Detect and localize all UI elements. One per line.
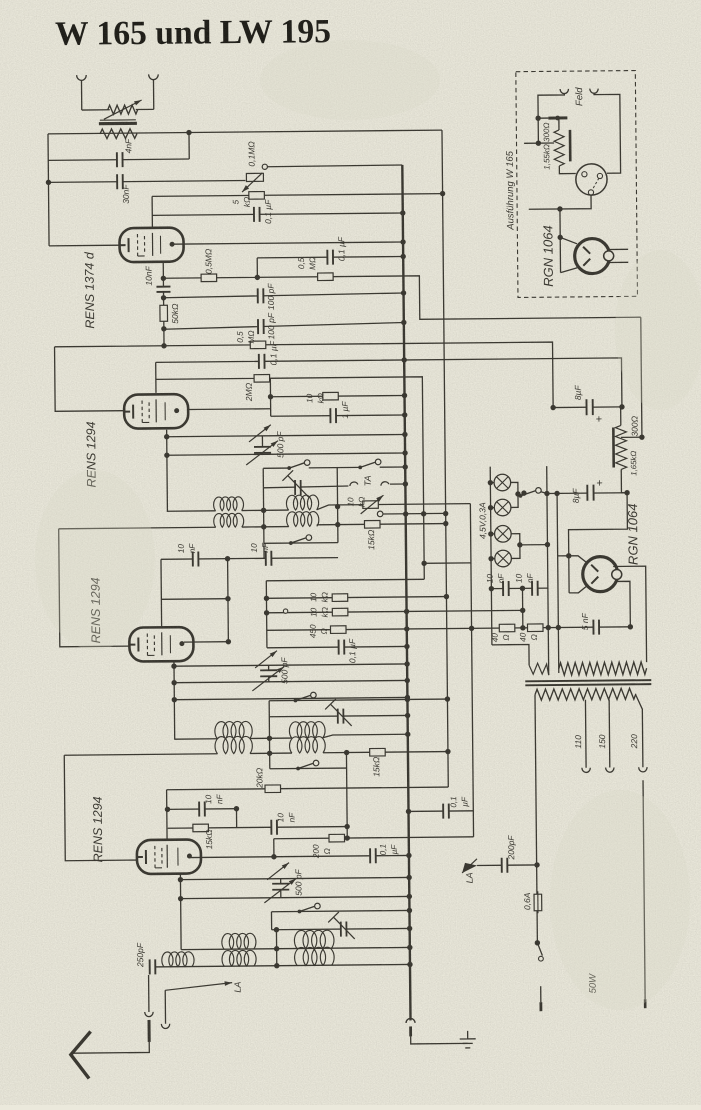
lamp L3 (494, 525, 511, 542)
pot wiper terminal circle (262, 164, 267, 169)
wire Feld right lead (594, 92, 621, 173)
jack TA left (350, 482, 358, 486)
label 450 ohm (309, 624, 329, 638)
resistor 0,5 M-ohm b (318, 273, 334, 281)
wire anode2 rail (177, 408, 271, 411)
wire trimmer row2 (269, 715, 407, 716)
wire V_k3 (173, 662, 176, 740)
switch hook on rail t3b (283, 609, 287, 613)
antenna terminal right (149, 74, 159, 79)
wire anode rail tube1 (171, 242, 403, 244)
dashed box Ausfuehrung W165 (516, 71, 638, 298)
slider bar of 1,65k resistor (612, 427, 615, 467)
wire RGN feed (568, 492, 628, 593)
node 272/965 (274, 963, 279, 968)
inductor A2 (286, 495, 318, 510)
wire coil gap D (250, 752, 292, 754)
heater winding zigzag (529, 663, 549, 675)
jack bus bottom (406, 1018, 415, 1023)
node 491/484 (488, 480, 493, 485)
wire V3 to tube3 (59, 528, 131, 647)
potentiometer 10 k-ohm volume (363, 501, 379, 509)
wire rail 450ohm heater (267, 627, 631, 630)
wire 500pF2 stub b (268, 676, 270, 681)
node bus 878 (406, 875, 411, 880)
arrow 500pF no2 b (252, 667, 284, 691)
inductor F2 (222, 950, 256, 966)
node bus 396 (402, 393, 407, 398)
wire 200ohm branch (274, 837, 474, 839)
node bus 690 (405, 695, 410, 700)
wire rail 700 (269, 699, 447, 701)
node 272/948 (274, 946, 279, 951)
node 344/838 (345, 835, 350, 840)
node 534/867 (534, 862, 539, 867)
capacitor 0,1uF grid2 (259, 354, 265, 369)
wire lamp1 bracket (511, 482, 518, 494)
wire anode inner rail (257, 256, 403, 257)
wire grid-cap vertical of tube V1 (151, 196, 153, 229)
switch mains lever (537, 943, 542, 956)
jack tap 110 (582, 768, 590, 773)
wire vertical 260 (256, 258, 258, 277)
node 522/612 (520, 608, 525, 613)
wire coil rail A (167, 510, 215, 512)
lamp L4 (495, 550, 512, 567)
label 0,5 M-ohm b (297, 257, 317, 270)
wire rail 30nF (48, 180, 245, 182)
node 344 D (344, 750, 349, 755)
socket pin c (588, 190, 593, 195)
inductor B2 (287, 512, 319, 527)
wire Feld slider lead (538, 117, 548, 119)
capacitor 5 nF (593, 620, 599, 635)
wire mains below switch (540, 986, 542, 1002)
node bus 213 (400, 210, 405, 215)
capacitor 8uF b (587, 485, 593, 501)
node k4 b (178, 896, 183, 901)
wire rail 1uF (271, 415, 405, 416)
node 629/629 (628, 624, 633, 629)
mains stub (539, 1002, 542, 1011)
terminal circle 10k pot (377, 511, 383, 517)
label 200 ohm (312, 844, 332, 859)
trimmer capacitor T1 (282, 470, 309, 497)
label 10 k t3b (309, 607, 329, 618)
node bus 453 (402, 450, 407, 455)
wire coil D right to 15k (323, 752, 448, 753)
jack Feld right (590, 89, 598, 94)
node 264 B (261, 524, 266, 529)
capacitor 30nF (117, 174, 123, 189)
capacitor 4nF (117, 152, 123, 167)
node bus 897 (407, 894, 412, 899)
wire trimmer row3 (272, 928, 410, 929)
wire lamp4 bracket (511, 545, 520, 559)
variable capacitor 500 pF no2 plates (260, 670, 277, 676)
wire 250pF down (148, 975, 150, 1012)
label 0,5 M-ohm c (236, 330, 256, 343)
wire lamp3 left stub (491, 533, 495, 535)
label 10 k-ohm pot (346, 497, 366, 508)
wire vertical 264 (262, 468, 265, 558)
wire right vertical to field tap (641, 317, 642, 437)
node bus 467 (402, 464, 407, 469)
wire lamp2 left stub (491, 507, 495, 509)
capacitor 10 nF t4b (271, 820, 277, 835)
node 338 A (335, 504, 340, 509)
wire secondary left down (535, 695, 537, 943)
node bus 327 (401, 320, 406, 325)
node 446/752 (445, 749, 450, 754)
resistor 200 ohm (329, 834, 345, 842)
node RGN top (566, 553, 571, 558)
wire 300ohm stub (620, 407, 622, 425)
node slider bar dot (555, 116, 560, 121)
slider track bar box (569, 130, 572, 161)
wire TA to bus (390, 483, 405, 485)
wire coil B right to 15k (317, 524, 446, 525)
node bus 435 (402, 432, 407, 437)
wire coil rail B left (59, 527, 216, 529)
node 227/597 (225, 596, 230, 601)
wire grid4 vertical (166, 790, 169, 847)
plug pin bus (409, 1026, 412, 1036)
wire lamp34 to right (520, 544, 548, 546)
node k3 a (171, 663, 176, 668)
wire V4 to tube4 (64, 755, 138, 861)
resistor 10 k-ohm t3b (332, 608, 348, 616)
wire rail 10k (271, 395, 405, 396)
node bus 812 (406, 809, 411, 814)
wire vertical 522 heater (521, 588, 523, 627)
node bus 612 (404, 609, 409, 614)
wire field tap (621, 436, 642, 438)
inductor B1 (214, 513, 244, 527)
resistor 1,55k box zigzag (554, 130, 564, 166)
node 557/629 (556, 625, 561, 630)
rectifier tube RGN 1064 envelope (583, 556, 618, 591)
wire vertical 446 (442, 130, 448, 787)
wire vertical 268 t4 (270, 912, 272, 930)
resistor 450 ohm (330, 626, 346, 634)
wire junction drop to 4nF rail (188, 133, 190, 159)
resistor 10 k-ohm t3a (332, 594, 348, 602)
wire LA vertical (164, 990, 166, 1023)
node 548/495 (544, 491, 549, 496)
label 10 nF h2 (515, 572, 535, 583)
lightning arrester bar thin (100, 119, 136, 121)
node 266/612 (264, 610, 269, 615)
node bus 360 (401, 357, 406, 362)
transformer primary winding (559, 662, 647, 675)
capacitor 200 pF (502, 858, 508, 873)
tetrode U4 RENS 1294 (137, 839, 201, 874)
wire antenna crossbar (82, 109, 110, 111)
wire RGN lead top-right (613, 566, 646, 662)
wire tap 110 (584, 700, 587, 768)
node lamp sw tap (515, 491, 520, 496)
resistor 0,5 M-ohm a (201, 274, 217, 282)
node box RGN top (557, 235, 562, 240)
wire rail 580 to bias group (266, 579, 424, 581)
capacitor 8uF a (586, 399, 592, 415)
wire ant coil rail bottom (152, 964, 409, 966)
wire anode4 rail (190, 855, 409, 857)
wire rail 453 (167, 453, 405, 455)
wire left vertical V1 (48, 134, 49, 246)
jack Feld left (560, 89, 568, 94)
wire 500pF3 stub a (280, 879, 282, 884)
wire rail t3 10k a (266, 597, 446, 599)
label 10 k-ohm (305, 393, 325, 404)
wire rail 0,1uF t3 (267, 646, 407, 647)
antenna arrow symbol (71, 1032, 91, 1079)
node bus 242 (400, 239, 405, 244)
node bus 911 (407, 908, 412, 913)
wire slider stub (558, 118, 560, 130)
wire RGN box lead a (560, 237, 577, 244)
resistor 50 k-ohm (160, 305, 168, 321)
wire lamp3 bracket (511, 534, 520, 545)
node 548/546 (545, 542, 550, 547)
switch S5 (296, 760, 319, 770)
switch lamp S7 (519, 488, 542, 498)
switch S3 (289, 535, 312, 545)
switch S2 (358, 459, 381, 469)
inductor D2 (289, 737, 325, 754)
capacitor 10 nF t4 (199, 802, 205, 817)
node k3 b (171, 680, 176, 685)
capacitor 0,1uF anode (327, 250, 333, 265)
node bus 514 (403, 511, 408, 516)
switch S1 (287, 460, 310, 470)
wire rail 10nF row (161, 558, 338, 560)
lamp L2 (494, 499, 511, 516)
wire rail 100pF a (164, 293, 404, 298)
node 491/509 (488, 505, 493, 510)
wire socket bottom lead (529, 195, 592, 209)
wire anode3 rail (184, 641, 228, 643)
wire rail 826 cluster (168, 827, 347, 829)
node 491/590 (489, 586, 494, 591)
node bus 631 (404, 626, 409, 631)
node bus 484 (403, 481, 408, 486)
node bus 948 (407, 945, 412, 950)
node Feld slider (535, 115, 540, 120)
transformer core line b (525, 684, 651, 685)
node 266/597 (264, 596, 269, 601)
label 10 nF t4 (204, 793, 224, 804)
node k3 c (172, 697, 177, 702)
node 0,5M mid (255, 275, 260, 280)
arrow 500pF no3 b (264, 879, 296, 903)
wire switch row2 (264, 542, 338, 545)
capacitor 10 nF b (266, 551, 272, 566)
inductor A1 (214, 497, 244, 511)
label 10 nF b (250, 542, 270, 553)
node 267 C (267, 736, 272, 741)
node bus 647 (404, 644, 409, 649)
capacitor 0,1uF mains (443, 804, 449, 819)
wire vertical 266 bias (265, 581, 268, 648)
wire grid3 vertical (160, 559, 163, 626)
node 271/856 (271, 854, 276, 859)
label 10 nF t4b (276, 812, 296, 823)
capacitor 10 nF h2 (532, 581, 538, 596)
wire 8uF rail b (547, 492, 627, 495)
wire tap 220 (636, 695, 643, 767)
node 8uF a left (550, 405, 555, 410)
node anode3 227 (226, 639, 231, 644)
capacitor 10 nF a (193, 551, 199, 566)
wire coil gap C (250, 737, 292, 739)
node 227 row (225, 556, 230, 561)
node k1 b (161, 295, 166, 300)
jack tap 220 (639, 767, 647, 772)
inductor E1 (222, 933, 256, 949)
socket pin a (582, 172, 587, 177)
node k1 c (161, 326, 166, 331)
node 471/629 (469, 626, 474, 631)
wire switch row4 (270, 767, 347, 770)
node 344/826 (344, 824, 349, 829)
node k2 a (164, 434, 169, 439)
label 0,1uF anode4 (379, 844, 399, 856)
wire antenna right lead (152, 80, 154, 109)
wire grid2 vertical (155, 362, 157, 392)
wire main anode bus (402, 165, 410, 1020)
wire Feld left lead (538, 93, 565, 143)
antenna terminal left (77, 75, 87, 80)
node bus 678 (405, 678, 410, 683)
jack TA right (381, 482, 389, 486)
wire RGN box lead b (561, 268, 578, 273)
inductor F1 (162, 952, 194, 967)
wire vertical 338 (336, 468, 339, 543)
wire rail R1 top (48, 130, 442, 134)
variable capacitor 500 pF no3 plates (272, 884, 289, 890)
RGN filament strokes (591, 565, 598, 584)
node 491/535 (488, 531, 493, 536)
RGN anode notch (612, 569, 622, 579)
ground symbol (460, 1031, 476, 1048)
wire vertical 557 filament (557, 493, 559, 673)
node 446/524 (443, 521, 448, 526)
label 10 k t3a (309, 592, 329, 603)
triode U1 RENS 1374 d (119, 228, 183, 263)
arrow 500pF no1 b (246, 441, 278, 465)
wire rail 678 (174, 680, 407, 682)
node 522/629 (520, 625, 525, 630)
wire rail 0,5M (163, 274, 640, 322)
inductor F3 (295, 947, 335, 965)
trimmer capacitor T2 (325, 699, 352, 726)
node bus 257 (400, 254, 405, 259)
wire V2 down to tube2 (55, 346, 124, 411)
node 548/629 (546, 625, 551, 630)
wire coil rail D left (64, 754, 217, 755)
node box 145 (536, 140, 541, 145)
node k2 b (164, 453, 169, 458)
label 5 k-ohm (231, 197, 251, 208)
wire V_k2 (166, 430, 169, 512)
label 10 nF h1 (486, 573, 506, 584)
inductor D1 (215, 736, 252, 753)
node 424/564 (421, 561, 426, 566)
wire 500pF2 stub a (268, 665, 270, 670)
resistor 40 ohm a (499, 624, 515, 632)
node k1 d (161, 343, 166, 348)
potentiometer 0,1 M-ohm body (246, 173, 263, 181)
wire ant coil rail top (181, 947, 410, 949)
resistor 15 k-ohm a (364, 520, 380, 528)
wire vertical 471 (470, 504, 473, 837)
switch S6 (297, 903, 320, 913)
node lamp34 join (517, 542, 522, 547)
trimmer capacitor T3 (328, 912, 355, 939)
node 446/597 (444, 594, 449, 599)
wire switch row5 (271, 910, 409, 911)
wire lamp vertical right (heater stub) (547, 466, 549, 627)
socket pin b (597, 173, 602, 178)
node k4 a (178, 877, 183, 882)
node 272/929 (274, 927, 279, 932)
node bus 700 (405, 697, 410, 702)
resistor 10 k-ohm (323, 392, 339, 400)
arrow LA mains (462, 863, 477, 873)
wire bus tail (411, 1036, 468, 1044)
node 234/807 (234, 806, 239, 811)
arrow through 10k pot (360, 495, 383, 514)
arrow LA tap (165, 981, 232, 990)
wire pot wiper to bus top (267, 165, 402, 167)
wire antenna left lead (80, 81, 82, 110)
switch S4 (293, 692, 316, 702)
wire coil A right to pot (317, 504, 471, 510)
wire 500pF stub a (261, 436, 263, 447)
switch mains contact (539, 956, 544, 961)
node field tap (639, 434, 644, 439)
wire V_k4 (179, 875, 182, 950)
mains lead 220 tip (644, 999, 647, 1008)
wire rail 878 (180, 877, 409, 879)
node 165/807 (165, 807, 170, 812)
label 40 ohm a (491, 632, 511, 642)
wire RGN stub left (558, 555, 569, 557)
mains lead 220 (643, 780, 645, 999)
wire trimmer row1 (263, 486, 348, 488)
capacitor 100 pF a (258, 288, 264, 303)
arrow 500pF no1 a (249, 425, 271, 442)
resistor antenna series (100, 129, 137, 139)
node 8uF b right (624, 490, 629, 495)
capacitor 0,1uF anode4 (370, 848, 376, 863)
tube socket circle box (576, 164, 607, 195)
wire lamp4 left stub (491, 558, 495, 560)
capacitor 10nF cathode (156, 287, 170, 292)
transformer secondary winding (535, 688, 636, 700)
node 424/514 (421, 511, 426, 516)
node bus 965 (407, 962, 412, 967)
arrow of potentiometer (242, 173, 263, 192)
variable capacitor 500 pF no1 plates (254, 447, 271, 453)
node bus 929 (407, 926, 412, 931)
wire rail t3 10k b (267, 610, 523, 612)
node 338 B (335, 522, 340, 527)
wire antenna lead bottom (73, 1042, 150, 1053)
node 446/514 (443, 511, 448, 516)
